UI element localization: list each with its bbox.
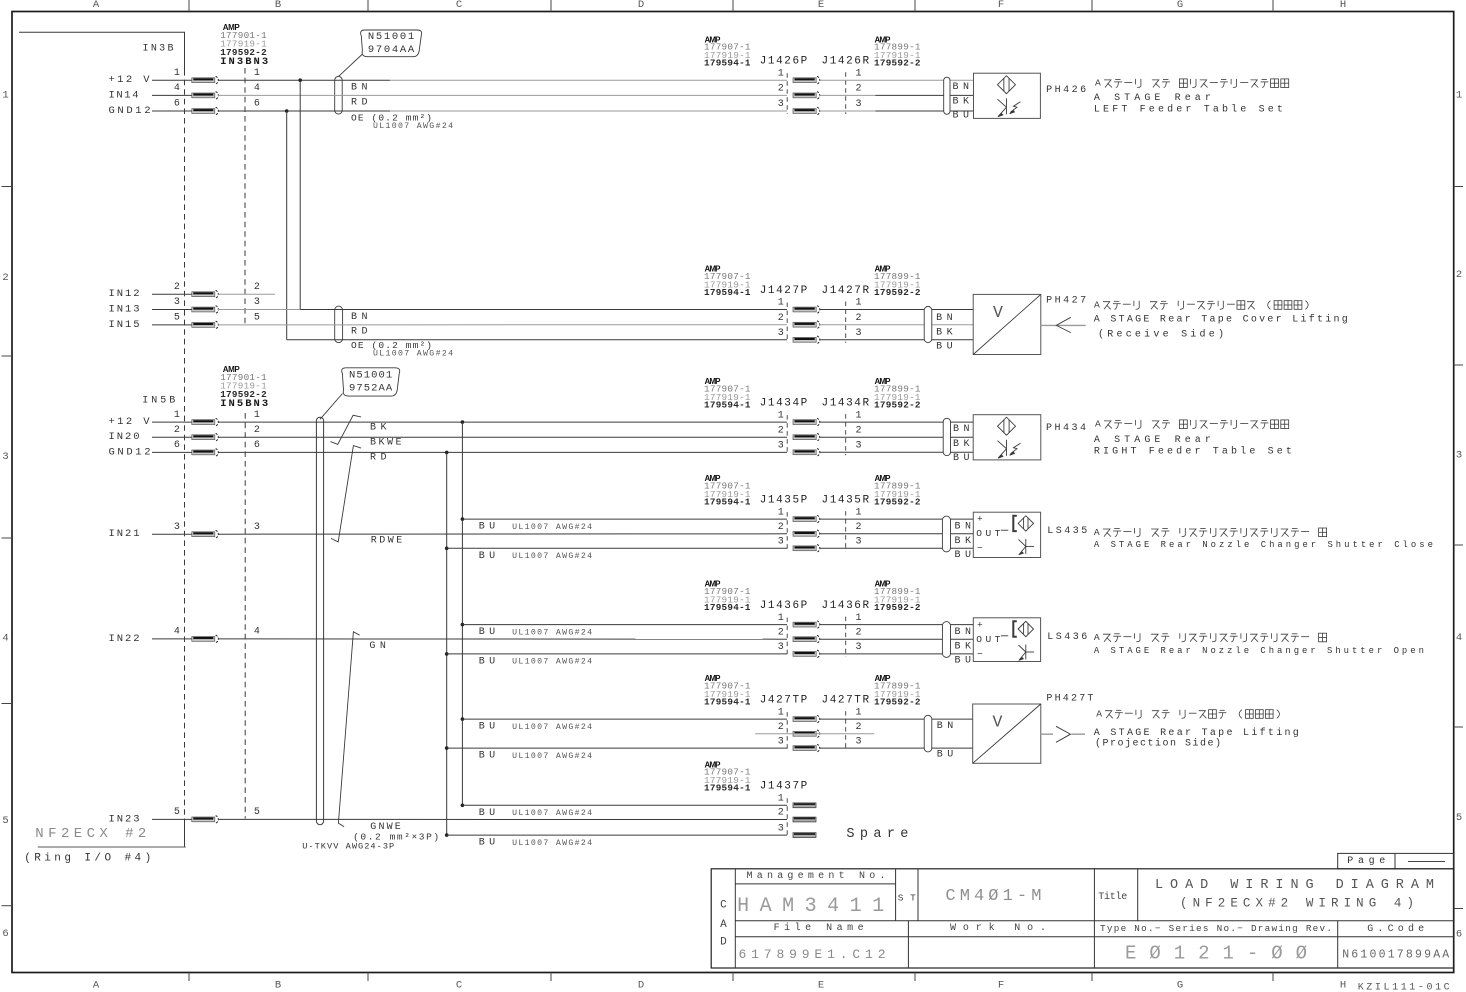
svg-text:UL1007 AWG#24: UL1007 AWG#24 xyxy=(512,658,592,667)
svg-text:5: 5 xyxy=(174,313,180,324)
wire IN20 run to J1434P pin2 xyxy=(218,436,787,438)
wire BU branch to LS435 pin1 xyxy=(462,518,787,520)
AMP part numbers near J1436R xyxy=(874,580,921,613)
terminal bar pin 2 xyxy=(192,433,219,441)
svg-text:2: 2 xyxy=(855,425,861,436)
svg-text:1: 1 xyxy=(855,298,861,309)
svg-text:U-TKVV AWG24-3P: U-TKVV AWG24-3P xyxy=(302,841,394,851)
svg-text:179592-2: 179592-2 xyxy=(874,602,921,613)
svg-text:IN14: IN14 xyxy=(109,89,139,101)
svg-text:3: 3 xyxy=(855,537,861,548)
AMP part numbers near J427TR xyxy=(874,674,921,707)
terminal pin 2 of J427TP xyxy=(793,730,820,738)
svg-text:A: A xyxy=(1095,78,1101,89)
LS435 emitter diamond with bracket xyxy=(1013,516,1033,531)
svg-text:6: 6 xyxy=(174,99,180,110)
connector J427TR dashed centerline xyxy=(845,711,847,751)
svg-text:C: C xyxy=(456,980,462,992)
svg-text:A: A xyxy=(1096,709,1102,720)
svg-text:N51001: N51001 xyxy=(349,369,392,381)
column labels bottom A-H xyxy=(93,980,1346,992)
svg-text:GND12: GND12 xyxy=(109,446,151,458)
cable sheath marker xyxy=(942,516,950,552)
svg-text:LS435: LS435 xyxy=(1047,526,1087,537)
row labels right 1-6 xyxy=(1456,90,1462,941)
wire IN21 to terminal xyxy=(152,533,192,535)
svg-text:D: D xyxy=(638,980,644,992)
svg-text:PH434: PH434 xyxy=(1046,423,1086,434)
terminal bar pin 3 xyxy=(192,306,219,314)
svg-text:+: + xyxy=(977,619,983,630)
svg-text:F: F xyxy=(998,0,1004,11)
svg-text:OUT: OUT xyxy=(976,634,1000,645)
description JP: A stage rear tape cover lifting (receive side) xyxy=(0,0,1,1)
svg-text:179592-2: 179592-2 xyxy=(874,399,921,410)
photo sensor PH426 emitter diamond symbol xyxy=(997,76,1015,94)
svg-text:+12 V: +12 V xyxy=(109,416,151,428)
photo sensor PH426 body xyxy=(974,73,1041,118)
svg-text:A: A xyxy=(1094,527,1100,538)
svg-text:UL1007 AWG#24: UL1007 AWG#24 xyxy=(373,122,453,131)
cable sheath marker xyxy=(335,306,343,343)
terminal pin 3 of J1426P xyxy=(793,107,820,115)
svg-text:E: E xyxy=(818,980,824,992)
wire J1435R pin1 to LS435 xyxy=(820,518,974,520)
terminal pin 2 of J1426P xyxy=(793,92,820,100)
svg-text:4: 4 xyxy=(174,83,180,94)
svg-text:2: 2 xyxy=(174,425,180,436)
AMP part numbers near J1436P xyxy=(704,580,751,613)
svg-text:179594-1: 179594-1 xyxy=(704,58,751,69)
svg-text:3: 3 xyxy=(778,99,784,110)
description JP: A stage rear nozzle changer shutter open xyxy=(0,0,1,1)
svg-text:3: 3 xyxy=(174,297,180,308)
svg-text:9752AA: 9752AA xyxy=(349,383,393,395)
terminal bar pin 4 xyxy=(192,92,219,100)
wire IN12 to terminal xyxy=(152,293,192,295)
wire J1426R pin3 to PH426 xyxy=(820,110,974,112)
svg-text:CM4Ø1-M: CM4Ø1-M xyxy=(945,887,1041,906)
svg-text:179592-2: 179592-2 xyxy=(220,389,267,400)
balloon leader line xyxy=(339,54,363,76)
svg-text:4: 4 xyxy=(1456,632,1462,644)
svg-text:2: 2 xyxy=(254,425,260,436)
terminal pin 2 of J1436P xyxy=(793,635,820,643)
junction BU branch PH427T pin3 xyxy=(445,746,449,750)
junction GND12 drop xyxy=(285,109,289,113)
LS435 receiver arrow symbol xyxy=(1019,539,1035,555)
wire +12V run to J1434P pin1 xyxy=(218,421,787,423)
svg-text:1: 1 xyxy=(174,68,180,79)
photo sensor PH434 body xyxy=(973,415,1041,460)
svg-text:2: 2 xyxy=(855,627,861,638)
wire IN15 run to J1427P pin2 xyxy=(218,324,787,326)
terminal pin 3 of J1436P xyxy=(793,650,820,658)
AMP part numbers near J1435R xyxy=(874,474,921,507)
svg-text:C: C xyxy=(720,900,727,912)
junction BU branch LS435 pin1 xyxy=(461,517,465,521)
description JP: A stage rear left feeder table xyxy=(0,0,1,1)
svg-text:KZIL111-01C: KZIL111-01C xyxy=(1358,982,1450,992)
description JP: A stage rear nozzle changer shutter close xyxy=(0,0,1,1)
svg-text:179594-1: 179594-1 xyxy=(704,602,751,613)
wire BU branch to J1437P pin1 xyxy=(462,804,787,806)
svg-text:2: 2 xyxy=(1456,269,1462,281)
cable sheath marker xyxy=(335,76,343,114)
title block Page box xyxy=(1338,853,1454,868)
wire J1426R pin1 to PH426 xyxy=(820,79,974,81)
svg-text:Title: Title xyxy=(1098,891,1127,903)
wire BU branch to PH427T pin3 xyxy=(447,747,787,749)
svg-text:D: D xyxy=(638,0,644,11)
wire J1434R pin1 to PH434 xyxy=(820,421,974,423)
description JP: A stage rear right feeder table xyxy=(0,0,1,1)
wire GND12 run to J1426P pin3 xyxy=(218,110,787,112)
svg-text:2: 2 xyxy=(855,313,861,324)
wire IN23 to terminal xyxy=(152,818,192,820)
title block outer box xyxy=(711,869,1453,968)
svg-text:IN12: IN12 xyxy=(109,288,140,300)
AMP part numbers near J427TP xyxy=(704,674,751,707)
svg-text:IN23: IN23 xyxy=(109,813,140,825)
svg-text:2: 2 xyxy=(174,282,180,293)
wire BU branch to LS436 pin1 xyxy=(462,624,787,626)
wire J1436R pin1 to LS436 xyxy=(820,624,974,626)
row ticks left xyxy=(2,187,13,906)
LS435 OUT overline dash xyxy=(1001,529,1009,531)
leader BK/BKWE pair xyxy=(331,415,362,444)
svg-text:179592-2: 179592-2 xyxy=(874,287,921,298)
svg-text:2: 2 xyxy=(778,313,784,324)
reference balloon N51001/9704AA xyxy=(361,30,422,57)
wire IN22 run to J1436P pin2 xyxy=(218,638,787,640)
vertical bus GND12 (x=447) xyxy=(446,452,448,835)
svg-text:3: 3 xyxy=(254,522,260,533)
reference balloon N51001/9752AA xyxy=(342,368,400,396)
svg-text:D: D xyxy=(720,936,727,948)
junction BU branch J1437P pin3 xyxy=(445,833,449,837)
connector J1426P dashed centerline xyxy=(786,73,788,114)
wire J1427R pin3 to PH427 xyxy=(820,339,974,341)
terminal pin 1 of J1426P xyxy=(793,76,820,84)
svg-text:5: 5 xyxy=(2,815,8,827)
wire J427TR pin1 to PH427T xyxy=(820,718,973,720)
svg-text:2: 2 xyxy=(778,522,784,533)
svg-text:5: 5 xyxy=(254,313,260,324)
svg-text:+: + xyxy=(977,514,983,525)
svg-text:2: 2 xyxy=(254,282,260,293)
svg-text:UL1007 AWG#24: UL1007 AWG#24 xyxy=(512,752,592,761)
svg-text:1: 1 xyxy=(855,707,861,718)
wire IN13 to terminal xyxy=(152,309,192,311)
svg-text:A STAGE Rear Nozzle Changer Sh: A STAGE Rear Nozzle Changer Shutter Clos… xyxy=(1094,540,1433,550)
terminal pin 1 of J1427P xyxy=(793,306,820,314)
svg-text:A: A xyxy=(1095,419,1101,430)
connector J1435R dashed centerline xyxy=(845,511,847,551)
photo sensor PH427T receiver body xyxy=(973,704,1041,763)
junction +12V drop xyxy=(298,78,302,82)
cable sheath marker xyxy=(943,418,950,455)
svg-text:2: 2 xyxy=(778,808,784,819)
svg-text:2: 2 xyxy=(778,84,784,95)
svg-text:179592-2: 179592-2 xyxy=(874,496,921,507)
wire J1434R pin3 to PH434 xyxy=(820,451,974,453)
svg-text:2: 2 xyxy=(778,722,784,733)
terminal bar pin 1 xyxy=(192,418,219,426)
vertical bus +12V to cable OE-2 BN xyxy=(299,80,301,309)
svg-text:4: 4 xyxy=(2,632,8,644)
svg-text:G: G xyxy=(1177,0,1183,11)
svg-text:PH427: PH427 xyxy=(1046,295,1086,306)
svg-text:6: 6 xyxy=(174,440,180,451)
svg-text:B: B xyxy=(275,0,281,11)
AMP part numbers near J1427P xyxy=(704,265,751,298)
svg-text:V: V xyxy=(993,713,1003,732)
terminal bar pin 5 xyxy=(192,321,219,329)
terminal bar pin 2 xyxy=(192,290,219,298)
cable sheath marker xyxy=(924,715,932,752)
underline NF2ECX xyxy=(38,846,186,848)
connector J1434R dashed centerline xyxy=(845,414,847,455)
AMP part numbers near J1427R xyxy=(874,265,921,298)
svg-text:IN21: IN21 xyxy=(109,528,140,540)
wire J1427R pin1 to PH427 xyxy=(820,309,974,311)
svg-text:UL1007 AWG#24: UL1007 AWG#24 xyxy=(512,839,592,848)
photo sensor PH434 receiver symbol xyxy=(998,440,1021,459)
svg-text:(Projection Side): (Projection Side) xyxy=(1095,738,1221,750)
AMP part numbers near J1435P xyxy=(704,474,751,507)
svg-text:A: A xyxy=(720,919,727,931)
connector J1434P dashed centerline xyxy=(786,415,788,455)
LS436 receiver arrow symbol xyxy=(1019,645,1035,661)
svg-text:1: 1 xyxy=(254,68,260,79)
wire J427TR pin2 stub xyxy=(755,733,874,735)
svg-text:B: B xyxy=(275,980,281,992)
terminal bar pin 6 xyxy=(192,107,219,115)
svg-text:NF2ECX #2: NF2ECX #2 xyxy=(35,826,146,842)
svg-text:V: V xyxy=(993,303,1003,322)
junction BU branch LS436 pin3 xyxy=(445,652,449,656)
cable sheath marker xyxy=(924,307,932,343)
cable sheath marker xyxy=(942,622,950,658)
LS436 OUT overline dash xyxy=(1001,635,1009,637)
svg-text:1: 1 xyxy=(254,410,260,421)
terminal bar pin 4 xyxy=(192,635,219,643)
svg-text:3: 3 xyxy=(778,823,784,834)
svg-text:6: 6 xyxy=(2,928,8,940)
wire J1435R pin2 to LS435 xyxy=(820,533,974,535)
svg-text:4: 4 xyxy=(254,83,260,94)
terminal pin 1 of J1435P xyxy=(793,515,820,523)
svg-text:IN22: IN22 xyxy=(109,633,140,645)
junction BU branch LS436 pin1 xyxy=(461,623,465,627)
svg-text:−: − xyxy=(977,543,983,554)
svg-text:C: C xyxy=(456,0,462,11)
column ticks top xyxy=(189,0,1273,12)
svg-text:PH426: PH426 xyxy=(1046,85,1086,96)
wire +12 V to terminal xyxy=(152,421,192,423)
svg-text:3: 3 xyxy=(174,522,180,533)
svg-text:179592-2: 179592-2 xyxy=(874,58,921,69)
projection-light arrow of PH427T xyxy=(1041,726,1085,742)
svg-text:3: 3 xyxy=(855,441,861,452)
svg-text:3: 3 xyxy=(778,441,784,452)
svg-text:179592-2: 179592-2 xyxy=(874,696,921,707)
wire IN20 to terminal xyxy=(152,436,192,438)
svg-text:G: G xyxy=(1177,980,1183,992)
terminal pin 1 of J1437P xyxy=(793,803,816,808)
AMP connector part numbers for IN5BN3 xyxy=(220,365,267,400)
svg-text:A: A xyxy=(1094,300,1100,311)
svg-text:3: 3 xyxy=(855,99,861,110)
svg-text:179594-1: 179594-1 xyxy=(704,399,751,410)
svg-text:1: 1 xyxy=(2,90,8,102)
terminal pin 2 of J1434P xyxy=(793,433,820,441)
AMP connector part numbers for IN3BN3 xyxy=(220,23,267,58)
terminal pin 2 of J1427P xyxy=(793,321,820,329)
svg-text:LEFT Feeder Table Set: LEFT Feeder Table Set xyxy=(1094,104,1283,116)
svg-text:2: 2 xyxy=(855,84,861,95)
wire IN21 run to J1435P pin2 xyxy=(218,533,787,535)
wire GND12 run to J1434P pin3 xyxy=(218,451,787,453)
vertical bus +12V (x=462) xyxy=(461,422,463,805)
junction +12V drop (IN5B) xyxy=(461,420,465,424)
connector J1427R dashed centerline xyxy=(845,302,847,343)
page number dash xyxy=(1408,861,1445,863)
wire +12V run to J1426P pin1 xyxy=(218,79,787,81)
row labels left 1-6 xyxy=(2,90,8,940)
multicore cable bundle (U-TKVV 3P) xyxy=(316,417,323,824)
svg-text:6: 6 xyxy=(1456,929,1462,941)
svg-text:9704AA: 9704AA xyxy=(368,44,415,56)
photo sensor PH434 emitter diamond symbol xyxy=(998,417,1016,435)
svg-text:Type No.− Series No.− Drawing: Type No.− Series No.− Drawing Rev. xyxy=(1100,923,1332,934)
connector IN5B inner dashed column xyxy=(244,413,246,819)
svg-text:UL1007 AWG#24: UL1007 AWG#24 xyxy=(512,523,592,532)
svg-text:+12 V: +12 V xyxy=(109,74,151,86)
connector J427TP dashed centerline xyxy=(786,712,788,751)
svg-text:1: 1 xyxy=(778,707,784,718)
svg-text:1: 1 xyxy=(855,507,861,518)
svg-text:3: 3 xyxy=(778,328,784,339)
svg-text:UL1007 AWG#24: UL1007 AWG#24 xyxy=(512,723,592,732)
svg-text:A: A xyxy=(1094,632,1100,643)
LS436 emitter diamond with bracket xyxy=(1013,621,1033,636)
terminal pin 3 of J1434P xyxy=(793,449,820,457)
description JP: A stage rear tape lifting (projection side) xyxy=(0,0,1,1)
svg-text:UL1007 AWG#24: UL1007 AWG#24 xyxy=(373,350,453,359)
connector J1427P dashed centerline xyxy=(786,303,788,343)
wire IN13 / BN run to J1427P pin1 xyxy=(218,309,787,311)
terminal bar pin 6 xyxy=(192,449,219,457)
svg-text:1: 1 xyxy=(1456,90,1462,102)
AMP part numbers near J1434P xyxy=(704,377,751,410)
limit sensor LS435 body xyxy=(973,512,1040,557)
wire J1434R pin2 to PH434 xyxy=(820,436,974,438)
label CAD vertical xyxy=(720,900,727,949)
terminal pin 3 of J1435P xyxy=(793,545,820,553)
wire J427TR pin3 to PH427T xyxy=(820,747,973,749)
svg-text:A STAGE Rear Tape Cover Liftin: A STAGE Rear Tape Cover Lifting xyxy=(1094,313,1348,325)
svg-text:UL1007 AWG#24: UL1007 AWG#24 xyxy=(512,552,592,561)
svg-text:5: 5 xyxy=(174,807,180,818)
svg-text:3: 3 xyxy=(254,297,260,308)
wire GND12 to terminal xyxy=(152,451,192,453)
svg-text:1: 1 xyxy=(778,68,784,79)
limit sensor LS436 body xyxy=(973,618,1040,662)
photo sensor PH426 receiver symbol xyxy=(997,98,1020,117)
svg-text:F: F xyxy=(998,980,1004,992)
connector IN3B inner dashed column xyxy=(244,68,246,325)
wire BU branch to J1437P pin3 xyxy=(447,834,787,836)
wire IN14 to terminal xyxy=(152,94,192,96)
svg-text:E: E xyxy=(818,0,824,11)
svg-text:6: 6 xyxy=(254,99,260,110)
svg-text:2: 2 xyxy=(778,425,784,436)
wire BU branch to LS436 pin3 xyxy=(447,653,787,655)
AMP part numbers near J1437P xyxy=(704,760,751,793)
wire GND12 to terminal xyxy=(152,110,192,112)
svg-text:1: 1 xyxy=(855,68,861,79)
wire GND run to J1427P pin3 xyxy=(287,339,787,341)
svg-text:1: 1 xyxy=(855,613,861,624)
svg-text:File Name: File Name xyxy=(774,922,864,934)
svg-text:179592-2: 179592-2 xyxy=(220,47,267,58)
wire IN23 run to J1437P pin2 xyxy=(218,818,787,820)
balloon leader line xyxy=(320,394,343,420)
vertical bus GND12 to cable OE-2 third wire xyxy=(286,111,288,340)
connector J1435P dashed centerline xyxy=(786,512,788,551)
wire IN14 run to J1426P pin2 xyxy=(218,94,787,96)
wire J1426R pin2 to PH426 xyxy=(820,94,974,96)
junction BU branch J1437P pin1 xyxy=(461,804,465,808)
connector J1436P dashed centerline xyxy=(786,618,788,657)
svg-text:179594-1: 179594-1 xyxy=(704,696,751,707)
svg-text:3: 3 xyxy=(855,736,861,747)
svg-text:179594-1: 179594-1 xyxy=(704,496,751,507)
svg-text:A: A xyxy=(93,0,100,11)
wire BU branch to LS435 pin3 xyxy=(447,547,787,549)
wire J1435R pin3 to LS435 xyxy=(820,547,974,549)
svg-text:3: 3 xyxy=(778,642,784,653)
svg-text:−: − xyxy=(977,648,983,659)
svg-text:1: 1 xyxy=(778,794,784,805)
svg-text:UL1007 AWG#24: UL1007 AWG#24 xyxy=(512,809,592,818)
svg-text:179594-1: 179594-1 xyxy=(704,287,751,298)
terminal pin 2 of J1435P xyxy=(793,530,820,538)
svg-text:3: 3 xyxy=(778,736,784,747)
svg-text:3: 3 xyxy=(855,328,861,339)
svg-text:IN13: IN13 xyxy=(109,304,140,316)
receive-light arrow of PH427 xyxy=(1041,317,1086,332)
wire IN15 to terminal xyxy=(152,324,192,326)
terminal pin 1 of J1436P xyxy=(793,621,820,629)
svg-text:3: 3 xyxy=(778,537,784,548)
AMP part numbers near J1426R xyxy=(874,35,921,68)
svg-text:H: H xyxy=(1340,980,1346,992)
terminal pin 3 of J1427P xyxy=(793,336,820,344)
terminal bar pin 5 xyxy=(192,816,219,824)
terminal pin 3 of J1437P xyxy=(793,833,816,838)
NF2ECX block outline xyxy=(19,32,185,847)
svg-text:UL1007 AWG#24: UL1007 AWG#24 xyxy=(512,628,592,637)
svg-text:1: 1 xyxy=(778,507,784,518)
svg-text:5: 5 xyxy=(254,807,260,818)
svg-text:IN20: IN20 xyxy=(109,431,140,443)
junction GND12 drop (IN5B) xyxy=(445,451,449,455)
wire J1427R pin2 to PH427 xyxy=(820,324,974,326)
column ticks bottom xyxy=(189,973,1273,982)
